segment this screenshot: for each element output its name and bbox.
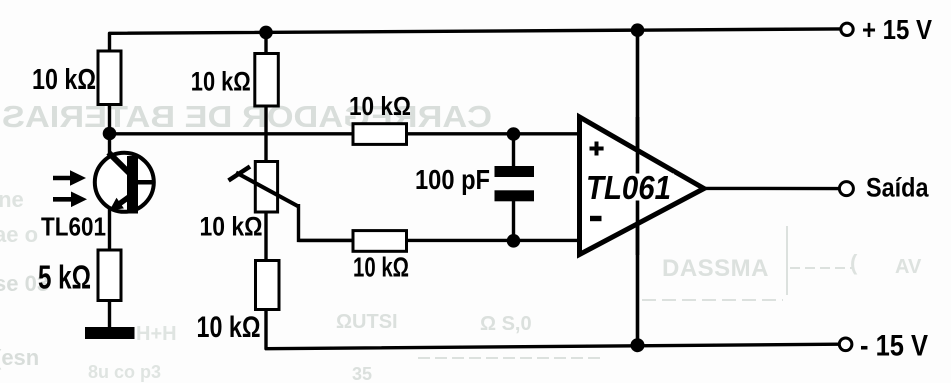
wire: potentiometer wiper down and right to inverting line	[299, 204, 354, 240]
wire: col2 R3 to bottom rail and -15V bottom rail	[266, 309, 839, 349]
op-amp U1 TL061	[580, 117, 705, 255]
svg-text:AV: AV	[895, 256, 922, 278]
svg-text:ae o: ae o	[0, 222, 38, 247]
wire: +15V top rail	[110, 29, 841, 52]
svg-text:35: 35	[352, 364, 372, 383]
svg-text:Saída: Saída	[866, 173, 929, 203]
svg-text:(: (	[850, 250, 858, 275]
capacitor C1 100 pF	[495, 166, 535, 177]
wire: col2 R2 to potentiometer (crosses + line, no junction)	[264, 105, 267, 162]
wire: Q1 emitter to R6	[108, 208, 111, 251]
node: junction dot col1 (R1 / collector / + line)	[103, 127, 117, 141]
light arrow 2 into Q1	[53, 192, 87, 208]
node: junction dot at + input / C1	[507, 127, 521, 141]
svg-text:10 kΩ: 10 kΩ	[353, 252, 409, 283]
faint reverse-side table lines	[418, 226, 852, 358]
svg-text:DASSMA: DASSMA	[662, 255, 769, 282]
phototransistor Q1 TL601	[95, 153, 155, 214]
terminal +15V	[841, 23, 853, 35]
svg-text:- 15 V: - 15 V	[860, 330, 928, 363]
svg-text:ine: ine	[0, 187, 24, 212]
wire: R6 to ground	[108, 300, 111, 330]
svg-text:10 kΩ: 10 kΩ	[349, 91, 411, 121]
svg-text:+ 15 V: + 15 V	[862, 14, 932, 45]
node: junction dot at - input / C1	[507, 234, 521, 248]
wire: op-amp output to Saida terminal	[704, 187, 840, 191]
wire: capacitor bottom lead	[512, 200, 515, 241]
wire: inverting input line (wiper to op-amp -)	[299, 239, 580, 242]
light arrow 1 into Q1	[53, 170, 86, 186]
wire: col1 R1 bottom to transistor collector, through node	[108, 104, 111, 154]
svg-text:10 kΩ: 10 kΩ	[200, 212, 263, 242]
node: junction dot supply line on top rail	[631, 23, 645, 37]
wire: capacitor top lead	[512, 134, 515, 167]
svg-text:TL061: TL061	[586, 169, 671, 206]
svg-text:5 kΩ: 5 kΩ	[38, 259, 91, 296]
resistor R4 10k (to + input)	[353, 124, 407, 145]
node: junction dot supply line on bottom rail	[631, 338, 645, 352]
svg-text:10 kΩ: 10 kΩ	[197, 311, 261, 344]
resistor R3 10k (col2 bottom)	[256, 261, 280, 310]
resistor R1 10k (top left)	[98, 51, 121, 105]
resistor R6 5k	[98, 250, 121, 301]
svg-text:100 pF: 100 pF	[415, 164, 490, 195]
svg-text:10 kΩ: 10 kΩ	[191, 67, 251, 97]
potentiometer P1 10k	[255, 162, 277, 213]
page bleed-through text from reverse side	[0, 99, 922, 383]
node: junction dot col2 on top rail	[259, 26, 273, 40]
resistor R5 10k (to - input)	[353, 231, 407, 252]
resistor R2 10k (col2 top)	[255, 54, 278, 107]
svg-text:CARREGADOR DE BATERIAS: CARREGADOR DE BATERIAS	[2, 99, 492, 134]
wire: col2 potentiometer to R3	[264, 211, 267, 261]
svg-text:8u co p3: 8u co p3	[88, 362, 161, 382]
wire: supply line over op-amp	[636, 117, 640, 255]
wire: op-amp supply line top rail to bottom rail	[636, 30, 640, 345]
terminal -15V	[839, 338, 852, 351]
svg-text:Ω S,0: Ω S,0	[480, 313, 532, 335]
wire: non-inverting input line (node to op-amp +)	[110, 132, 580, 135]
svg-text:10 kΩ: 10 kΩ	[32, 64, 96, 96]
svg-text:ΩUTSI: ΩUTSI	[336, 311, 398, 333]
svg-text:H+H: H+H	[136, 323, 177, 345]
svg-text:TL601: TL601	[41, 212, 106, 242]
wire: col2 rail to R2	[264, 31, 267, 54]
ground	[85, 327, 135, 339]
svg-text:(esn: (esn	[0, 345, 39, 370]
label TL061 on white backing	[584, 174, 674, 201]
terminal Saida	[839, 182, 853, 196]
